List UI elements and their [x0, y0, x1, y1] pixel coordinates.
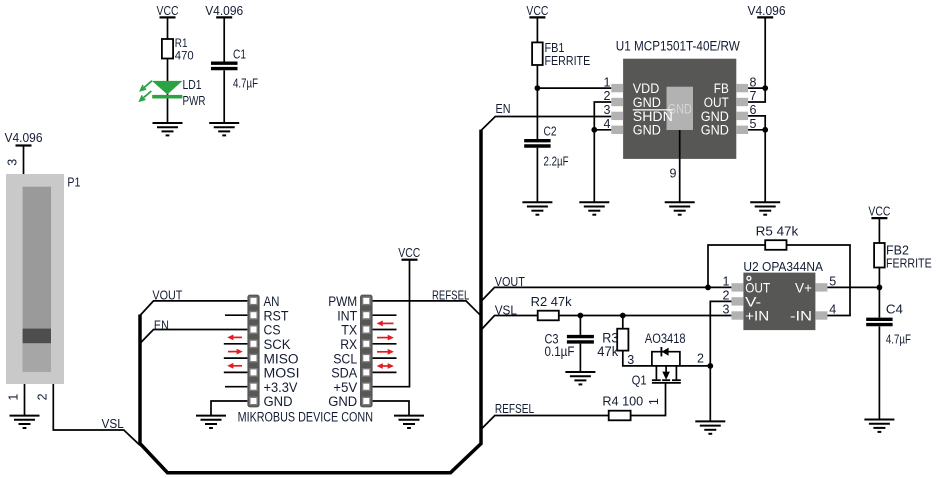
svg-text:GND: GND	[633, 123, 661, 139]
wire SDA stub	[373, 371, 397, 373]
svg-text:PWR: PWR	[183, 94, 206, 108]
wire pin5 GND	[748, 129, 765, 131]
wire SCL stub	[373, 357, 397, 359]
svg-text:4.7µF: 4.7µF	[886, 332, 911, 346]
op-amp U2 OPA344NA	[731, 260, 827, 330]
connector mikroBUS left header	[247, 294, 299, 410]
svg-text:VCC: VCC	[157, 4, 179, 18]
power V4.096 (C1 branch)	[205, 4, 243, 18]
svg-text:47k: 47k	[597, 344, 619, 360]
svg-text:V4.096: V4.096	[5, 131, 43, 145]
wire RST stub	[225, 314, 247, 316]
ground (U1 pin5/6)	[750, 202, 780, 214]
wire MOSI stub	[224, 371, 248, 373]
capacitor C4	[866, 303, 911, 347]
svg-text:GND: GND	[264, 394, 293, 410]
wire MISO stub	[224, 357, 248, 359]
svg-text:9: 9	[670, 167, 677, 181]
node junction FB1/VDD/C2	[535, 85, 541, 91]
power VCC (+5V)	[398, 246, 420, 260]
svg-text:2: 2	[723, 288, 730, 302]
node junction C3	[578, 313, 584, 319]
svg-text:470: 470	[175, 51, 194, 63]
LED LD1	[140, 78, 206, 108]
wire pin9 to ground	[679, 130, 681, 202]
svg-text:3: 3	[627, 353, 634, 367]
svg-text:REFSEL: REFSEL	[432, 289, 469, 303]
svg-text:VCC: VCC	[398, 246, 420, 260]
svg-text:REFSEL: REFSEL	[495, 402, 534, 416]
svg-text:3: 3	[723, 302, 730, 316]
svg-text:3: 3	[604, 103, 611, 117]
node junction pin2/pin4	[591, 127, 597, 133]
svg-text:4: 4	[829, 302, 836, 316]
wire R5 left leg	[708, 245, 765, 287]
wire VOUT (bus to AN)	[140, 301, 247, 316]
arrow left MOSI	[227, 363, 242, 369]
wire VCC to R1	[167, 17, 169, 39]
wire U2 pin5 V+ to FB2	[827, 286, 879, 288]
wire FB1 to C2	[536, 65, 538, 139]
ground (left header)	[196, 416, 226, 428]
resistor R3	[597, 329, 628, 361]
svg-text:8: 8	[750, 75, 757, 89]
wire VSL (bus to R2)	[481, 316, 538, 331]
wire C4 to ground	[878, 326, 880, 419]
ferrite FB1	[532, 41, 590, 68]
svg-text:GND: GND	[701, 123, 729, 139]
ground (U1 pin9)	[665, 202, 695, 214]
transistor Q1 AO3418	[632, 331, 686, 388]
wire Q1 drain to ground	[709, 366, 711, 422]
wire V4.096 to C1	[223, 17, 225, 61]
wire INT stub	[373, 314, 397, 316]
wire EN (bus to CS)	[140, 330, 247, 344]
svg-text:LD1: LD1	[183, 78, 202, 92]
wire GND right header to ground	[373, 401, 409, 416]
svg-text:C2: C2	[544, 124, 557, 138]
svg-text:C4: C4	[886, 303, 903, 317]
wire VDD (junction to pin1)	[537, 87, 611, 89]
svg-text:-IN: -IN	[790, 308, 812, 324]
svg-text:1: 1	[7, 394, 21, 401]
svg-text:C1: C1	[233, 48, 246, 62]
node junction V4.096/FB/OUT	[762, 85, 768, 91]
ground (C3)	[565, 372, 595, 384]
svg-text:FERRITE: FERRITE	[886, 256, 932, 270]
wire VOUT (bus to U2 pin1)	[481, 287, 731, 301]
arrow right SDA (bidirectional)	[377, 363, 394, 369]
svg-text:3: 3	[6, 159, 20, 166]
wire REFSEL from PWM to bus	[373, 301, 481, 316]
svg-text:P1: P1	[67, 176, 80, 190]
svg-text:U1 MCP1501T-40E/RW: U1 MCP1501T-40E/RW	[616, 39, 740, 54]
svg-text:V4.096: V4.096	[748, 4, 786, 18]
wire bus (thick)	[140, 130, 481, 473]
wire R2 to U2 pin3	[559, 315, 732, 317]
svg-text:GND: GND	[328, 394, 357, 410]
svg-text:R5 47k: R5 47k	[756, 224, 800, 238]
wire pin5/6 to ground	[764, 130, 766, 203]
wire R3 to Q1	[623, 351, 711, 366]
svg-text:4: 4	[604, 117, 611, 131]
connector mikroBUS right header	[328, 294, 372, 410]
svg-text:AO3418: AO3418	[645, 331, 686, 347]
node junction V+/FB2/C4	[877, 285, 883, 291]
wire U1 pin2 GND	[594, 102, 611, 202]
node junction pin5/pin6	[762, 127, 768, 133]
wire RX stub	[373, 343, 397, 345]
ground (Q1/V-)	[695, 421, 725, 433]
svg-text:1: 1	[604, 75, 611, 89]
wire pin8 FB	[748, 87, 765, 89]
svg-text:Q1: Q1	[632, 374, 647, 388]
arrow right RX	[377, 335, 394, 341]
svg-text:2.2µF: 2.2µF	[544, 155, 569, 169]
resistor R2	[531, 295, 573, 320]
wire U2 pin2 V- to ground	[710, 301, 731, 366]
svg-text:R2 47k: R2 47k	[531, 295, 573, 309]
resistor R4	[602, 394, 643, 420]
wire C2 to ground	[536, 148, 538, 203]
svg-text:VCC: VCC	[526, 4, 548, 18]
svg-text:1: 1	[723, 274, 730, 288]
ferrite FB2	[874, 243, 932, 270]
node junction Q1 drain / V-	[707, 363, 713, 369]
svg-text:VCC: VCC	[868, 205, 890, 219]
wire GND left header to ground	[211, 401, 247, 416]
op-amp U1 MCP1501T-40E/RW	[611, 39, 748, 159]
resistor R5	[756, 224, 800, 249]
connector P1	[6, 174, 80, 384]
svg-text:+IN: +IN	[745, 308, 769, 324]
arrow left MISO	[228, 349, 243, 355]
wire V4.096 to FB pin8	[764, 17, 766, 88]
wire SCK stub	[224, 343, 248, 345]
wire +5V to VCC	[373, 260, 410, 387]
capacitor C3	[545, 331, 594, 360]
svg-text:2: 2	[35, 393, 49, 400]
wire FB2 to junction and C4	[878, 268, 880, 318]
wire C1 to ground	[223, 70, 225, 123]
capacitor C1	[211, 48, 258, 91]
resistor R1	[162, 38, 194, 63]
ground (LED)	[153, 123, 183, 135]
svg-text:5: 5	[829, 274, 836, 288]
wire REFSEL (bus to R4)	[481, 416, 609, 430]
svg-text:0.1µF: 0.1µF	[545, 344, 575, 360]
svg-text:V+: V+	[795, 280, 812, 296]
svg-text:VOUT: VOUT	[152, 289, 182, 303]
svg-text:VSL: VSL	[102, 417, 124, 431]
wire +3.3V stub	[225, 386, 247, 388]
svg-text:FERRITE: FERRITE	[545, 54, 591, 68]
svg-text:1: 1	[647, 398, 661, 405]
wire R1 to LED and ground	[167, 59, 169, 124]
svg-text:R4 100: R4 100	[602, 394, 643, 408]
arrow right SCL	[377, 349, 394, 355]
ground (C2)	[522, 202, 552, 214]
wire VSL from P1 pin2 to bus	[53, 384, 140, 445]
wire P1 pin1 to ground	[24, 384, 26, 416]
ground (C4)	[864, 420, 894, 432]
svg-text:R1: R1	[175, 38, 188, 50]
svg-text:6: 6	[750, 103, 757, 117]
power VCC (FB2 branch)	[868, 205, 890, 219]
ground (U1 pin2/4)	[579, 202, 609, 214]
arrow right TX	[377, 321, 394, 327]
power VCC (R1 branch)	[157, 4, 179, 18]
node junction VOUT/R5	[705, 285, 711, 291]
power V4.096 (P1 branch)	[5, 131, 43, 146]
ground (right header)	[394, 416, 424, 428]
svg-text:EN: EN	[496, 102, 511, 116]
svg-text:2: 2	[604, 89, 611, 103]
svg-text:V4.096: V4.096	[205, 4, 243, 18]
wire pin6 GND	[748, 116, 765, 130]
node junction R3	[620, 313, 626, 319]
svg-text:7: 7	[750, 89, 757, 103]
wire TX stub	[373, 329, 397, 331]
capacitor C2	[524, 124, 569, 168]
wire gate to R4	[631, 383, 666, 416]
svg-text:5: 5	[750, 117, 757, 131]
svg-text:U2 OPA344NA: U2 OPA344NA	[743, 260, 823, 274]
arrow left SCK	[227, 335, 242, 341]
ground (P1 pin1)	[10, 416, 40, 428]
wire VCC to FB1	[536, 17, 538, 42]
svg-text:4.7µF: 4.7µF	[233, 77, 258, 91]
wire to R3	[622, 316, 624, 329]
svg-text:MIKROBUS DEVICE CONN: MIKROBUS DEVICE CONN	[238, 409, 373, 424]
wire C3 to ground	[579, 344, 581, 372]
svg-text:2: 2	[697, 352, 704, 366]
wire EN to SHDN	[481, 117, 611, 131]
wire to C3	[579, 316, 581, 335]
wire pin7 OUT	[748, 88, 765, 102]
svg-text:EN: EN	[154, 318, 169, 332]
ground (C1)	[209, 123, 239, 135]
wire VCC to FB2	[878, 218, 880, 243]
power V4.096 (U1 branch)	[748, 4, 786, 18]
svg-text:VSL: VSL	[495, 304, 517, 318]
wire R5 right leg to pin4	[787, 245, 851, 316]
svg-text:VOUT: VOUT	[495, 275, 526, 289]
wire U1 pin4 GND	[594, 129, 611, 131]
power VCC (FB1 branch)	[526, 4, 548, 18]
wire V4.096 to P1 pin3	[23, 146, 25, 175]
